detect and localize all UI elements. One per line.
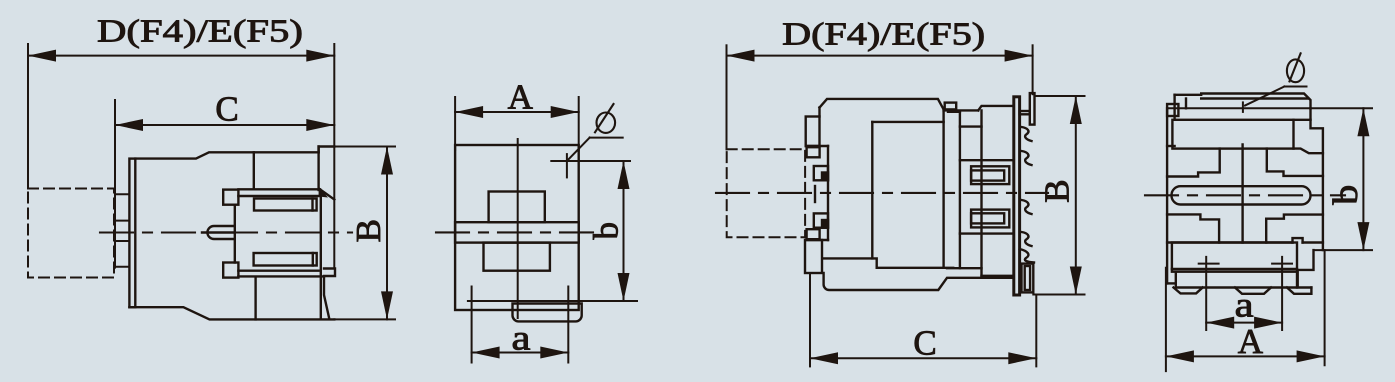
svg-text:D(F4)/E(F5): D(F4)/E(F5) [782, 16, 985, 52]
dimension A view4 : dimension line [1166, 355, 1325, 357]
dimension D(F4)/E(F5) view3 : dimension line [727, 55, 1033, 57]
body outline top view1 [135, 152, 318, 158]
dimension C view3 : extension right [1035, 295, 1037, 366]
bottom hook view3 [1020, 249, 1034, 263]
body rectangle view2 [455, 145, 579, 310]
band right chamfer view4 [1294, 149, 1323, 154]
body left edge top view3 [818, 108, 820, 117]
body left edge view4 [1166, 108, 1168, 283]
right edge top view4 [1311, 108, 1323, 250]
dimension D(F4)/E(F5) view3 : extension right [1032, 45, 1034, 94]
upper terminal plate view1 [254, 199, 317, 211]
upper tab view2 [489, 192, 545, 223]
bottom rounded tab view2 [513, 304, 582, 322]
foot cup 3 view4 [1287, 288, 1311, 294]
center axis view4 [1241, 145, 1243, 243]
lower staircase right view4 [1266, 215, 1323, 243]
centerline view4 [1145, 194, 1345, 196]
svg-text:B: B [349, 219, 388, 242]
bottom band top line view4 [1167, 241, 1292, 243]
capsule (rail slot) view4 [1172, 186, 1311, 204]
lower terminal plate view1 [254, 253, 317, 266]
dimension B view3 : bottom extension [1033, 294, 1084, 296]
diameter leader view4 [1284, 86, 1306, 88]
dimension a view2 : dimension line [472, 352, 569, 354]
dimension B view1 : top extension [319, 146, 395, 148]
bottom square clip view1 [223, 263, 238, 278]
upper contact line2 view1 [238, 195, 318, 197]
terminal bar 1 view3 [971, 166, 1009, 184]
bottom band view4 [1172, 243, 1297, 272]
top clip view3 [806, 117, 820, 147]
dimension A view2 : extension left [454, 97, 456, 150]
dashed accessory box view3 [727, 149, 805, 237]
dimension D(F4)/E(F5) view3 : extension left [726, 45, 728, 149]
diameter leader view2 [590, 137, 623, 139]
dimension B view1 : bottom extension [334, 318, 395, 320]
centerline view3 [716, 192, 1048, 194]
right column dividers view3 [948, 111, 960, 113]
dimension B view3 : top extension [1035, 95, 1085, 97]
dimension b view2 : dimension line [623, 161, 625, 301]
body left face view1 (double line) [129, 159, 135, 308]
upper contact line1 view1 [238, 188, 320, 190]
dimension C view1 : left arrowhead [115, 119, 143, 131]
foot cup 2 view4 [1235, 288, 1271, 294]
lower contact line2 view1 [238, 270, 318, 272]
dimension B view1 : bottom arrowhead [381, 291, 393, 319]
dimension b view4 : bottom extension [1314, 249, 1373, 251]
dimension C view3 : dimension line [810, 357, 1036, 359]
svg-text:B: B [1038, 179, 1077, 202]
dashed accessory box view1 [28, 189, 114, 278]
bump square view3 [945, 103, 957, 110]
dimension B view3 : dimension line [1075, 96, 1077, 295]
foot cup 1 view4 [1174, 288, 1203, 294]
centerline tick view3 [814, 186, 816, 202]
diameter symbol view2 [597, 113, 616, 133]
small clip A view3 [807, 147, 820, 157]
dimension A view4 : extension right [1324, 250, 1326, 365]
back clips ticks view1 [115, 193, 129, 195]
body left face view3 [827, 146, 829, 240]
svg-text:A: A [508, 78, 534, 117]
left notch view4 [1167, 104, 1178, 116]
dimension D(F4)/E(F5) view1 : left arrowhead [28, 50, 56, 62]
dimension C view1 : extension line left / back strip [114, 100, 116, 268]
tab B view3 [814, 166, 828, 180]
dimension b view4 : dimension line [1362, 108, 1364, 250]
dimension D(F4)/E(F5) view1 : extension line right [333, 44, 335, 269]
lower tab view2 [484, 243, 550, 271]
centerline view1 [100, 231, 352, 233]
dimension a view4 : dimension line [1206, 322, 1282, 324]
dimension B view1 : top arrowhead [381, 147, 393, 175]
dimension C view3 : extension left [809, 273, 811, 366]
left foot corner view4 [1167, 282, 1176, 284]
lower staircase left view4 [1167, 214, 1219, 242]
flange diagonal view1 [320, 189, 335, 200]
lower contact line1 view1 [238, 275, 324, 277]
dimension A view2 : extension right [578, 97, 580, 150]
rail bar view2 [455, 222, 579, 242]
upper staircase left view4 [1167, 149, 1220, 177]
hole tick view4 [1242, 102, 1244, 112]
small clip D view3 [807, 229, 820, 239]
svg-text:C: C [913, 324, 936, 363]
dimension D(F4)/E(F5) view1 : dimension line [28, 55, 334, 57]
upper staircase right view4 [1267, 149, 1323, 176]
top face line view4 / b top extension [1167, 107, 1372, 109]
skirt view3 [824, 273, 1014, 290]
dimension D(F4)/E(F5) view1 : right arrowhead [306, 50, 334, 62]
top divider view1 [253, 152, 255, 189]
dimension B view1 : dimension line [386, 147, 388, 320]
dimension a view2 : extension lines [471, 287, 473, 363]
bottom-right foot view1 [324, 269, 335, 318]
shoulder view3 [806, 145, 828, 147]
lid view4 [1175, 94, 1311, 109]
top-right flange view1 [319, 147, 335, 153]
dimension C view1 : right arrowhead [306, 119, 334, 131]
spring hooks view3 [1022, 127, 1032, 141]
svg-text:D(F4)/E(F5): D(F4)/E(F5) [97, 13, 303, 49]
dimension A view2 : dimension line [455, 111, 579, 113]
diameter symbol view4 [1287, 59, 1304, 82]
top right ledge view3 [944, 109, 979, 111]
ledge step view3 [978, 106, 1014, 111]
dimension b view2 : bottom extension [468, 300, 637, 302]
upper band view4 [1172, 120, 1293, 149]
dimension a view4 : extension lines [1205, 257, 1207, 330]
svg-text:a: a [1235, 286, 1255, 325]
dimension C view1 : dimension line [115, 124, 334, 126]
bottom right notch view4 [1293, 238, 1303, 242]
skirt inner lines view3 [823, 258, 953, 267]
svg-text:C: C [215, 90, 238, 129]
svg-text:a: a [512, 319, 532, 358]
hole cross ticks view4 [1199, 263, 1219, 265]
hole cross view2 / dimension b top extension [551, 160, 630, 162]
top square clip view1 [223, 190, 238, 205]
bottom shoulder view3 [806, 239, 828, 241]
tab C view3 [814, 213, 828, 227]
body right edge view1 [320, 197, 322, 319]
body outline bottom view1 [129, 307, 334, 319]
top screw view3 [1030, 93, 1035, 125]
band bottom left link view4 [1167, 145, 1175, 147]
inner verticals view3 [871, 122, 873, 259]
mounting plate view3 [1014, 97, 1020, 295]
bottom right steps view4 [1298, 250, 1314, 286]
bottom divider view1 [254, 278, 256, 320]
center axis view2 [517, 139, 519, 318]
bottom clip view3 [805, 240, 822, 273]
top right link view4 [1294, 119, 1311, 121]
bottom screw view3 [1022, 264, 1034, 293]
svg-text:b: b [587, 222, 626, 240]
contact carrier vertical view1 [234, 205, 236, 263]
svg-text:A: A [1238, 322, 1264, 361]
terminal bar 2 view3 [971, 210, 1009, 228]
svg-text:b: b [1326, 185, 1365, 205]
horizontal centerline view2 [436, 231, 600, 233]
armature bullet view1 [207, 226, 234, 239]
foot band view4 [1175, 272, 1177, 288]
dimension D(F4)/E(F5) view1 : extension line left [27, 44, 29, 189]
dimension A view4 : extension left [1165, 268, 1167, 371]
body top edge view3 [820, 99, 944, 110]
